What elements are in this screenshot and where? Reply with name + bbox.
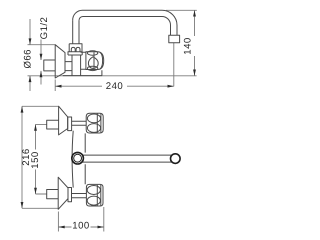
svg-text:140: 140 (183, 37, 194, 54)
svg-text:G1/2: G1/2 (39, 17, 50, 40)
svg-text:100: 100 (72, 220, 89, 231)
svg-text:150: 150 (30, 151, 41, 168)
svg-text:Ø66: Ø66 (23, 49, 34, 68)
svg-text:240: 240 (106, 81, 123, 92)
